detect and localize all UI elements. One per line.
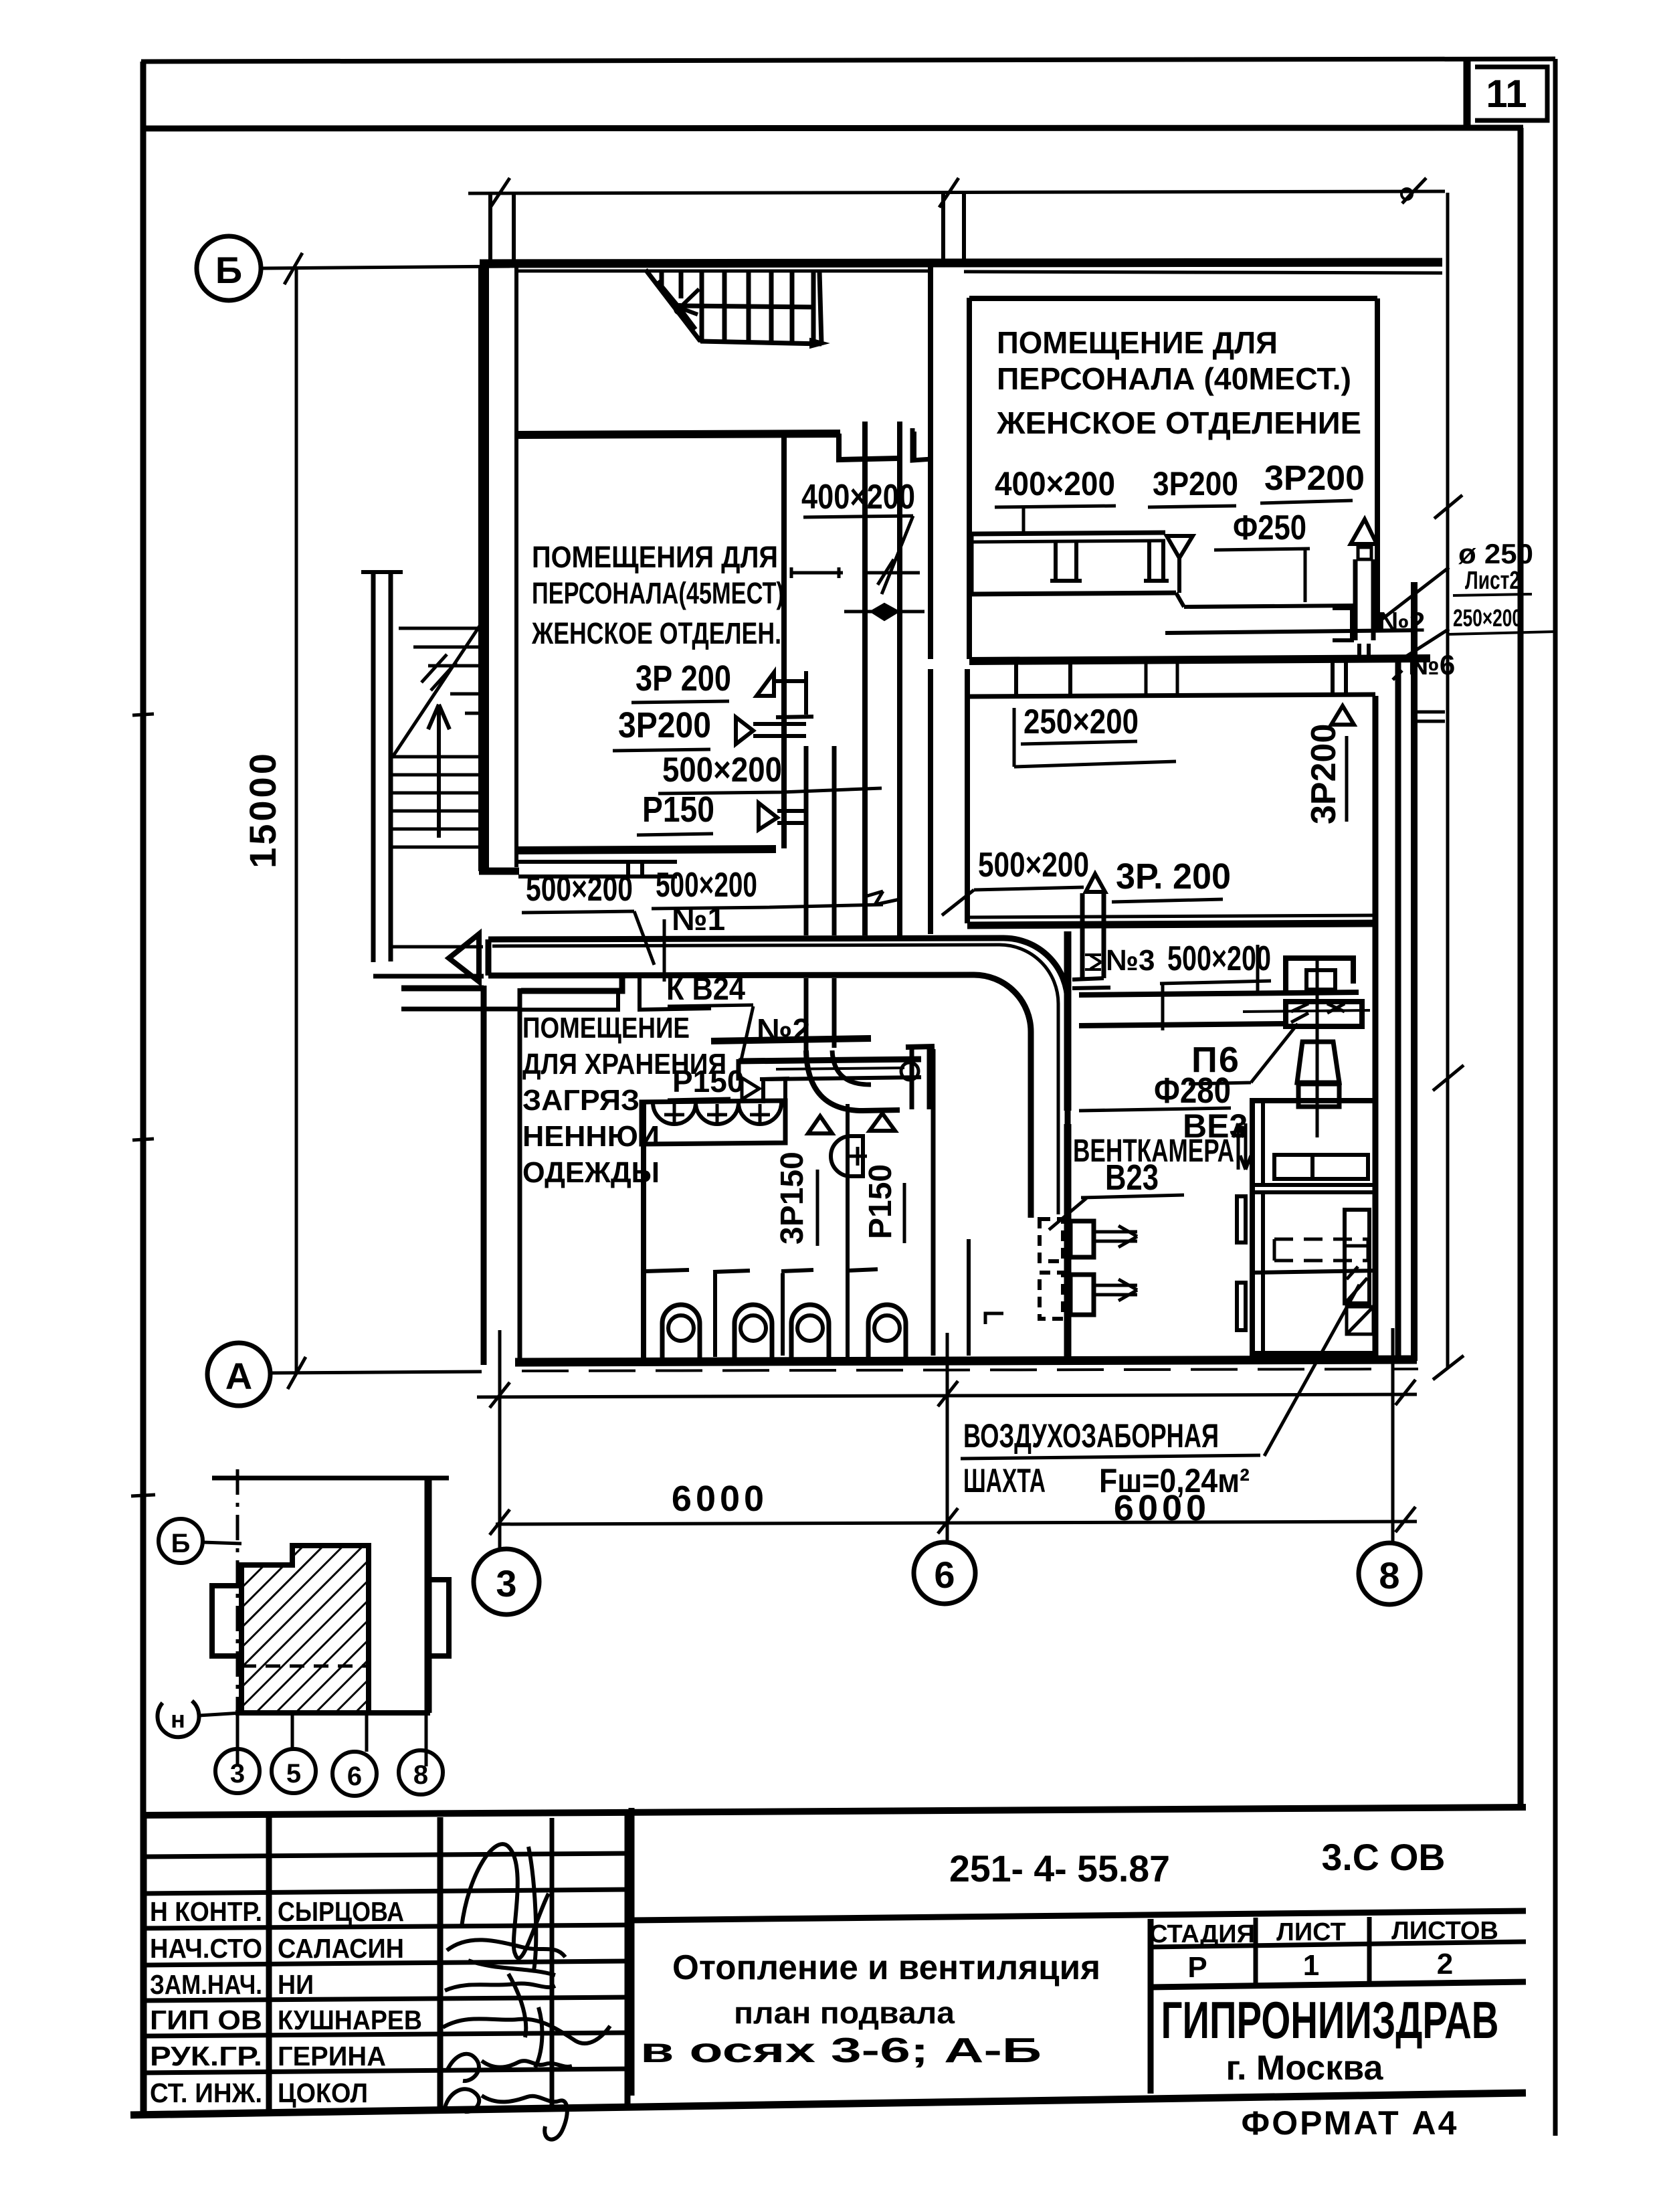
room40 duct grille 1 — [1050, 541, 1082, 581]
fan П6 flexible cone — [1297, 1042, 1339, 1083]
svg-text:Н КОНТР.: Н КОНТР. — [150, 1896, 262, 1927]
svg-text:ШАХТА: ШАХТА — [963, 1462, 1046, 1499]
svg-text:5: 5 — [286, 1759, 301, 1788]
svg-text:Р150: Р150 — [672, 1064, 744, 1099]
wc mid partition — [846, 1104, 850, 1358]
room40 duct reducer — [1176, 593, 1184, 607]
svg-text:ПОМЕЩЕНИЯ ДЛЯ: ПОМЕЩЕНИЯ ДЛЯ — [532, 540, 778, 574]
room45 east wall — [781, 436, 787, 848]
key plan axis circle Н — [157, 1701, 199, 1737]
leader to ø250 — [1378, 567, 1449, 622]
svg-text:№2: №2 — [1378, 606, 1425, 638]
west wall lower inner — [401, 988, 520, 1362]
drawing frame top — [145, 128, 1523, 128]
svg-text:3.С ОВ: 3.С ОВ — [1322, 1836, 1446, 1878]
main duct exit arrow — [449, 934, 479, 982]
storage room top wall — [521, 977, 622, 991]
staff table role and name labels — [150, 1896, 422, 2108]
svg-text:В23: В23 — [1105, 1158, 1159, 1198]
B23 internal top section — [1252, 1101, 1375, 1192]
svg-text:6: 6 — [347, 1762, 362, 1791]
corridor duct junction diamond — [872, 604, 898, 620]
wc partition 2 — [781, 1270, 813, 1356]
svg-text:ГИПРОНИИЗДРАВ: ГИПРОНИИЗДРАВ — [1161, 1991, 1499, 2049]
svg-text:250×200: 250×200 — [1453, 604, 1522, 632]
svg-text:СТ. ИНЖ.: СТ. ИНЖ. — [150, 2078, 262, 2108]
riser N3 — [1082, 893, 1104, 978]
svg-text:НИ: НИ — [278, 1969, 314, 2000]
room40 west wall — [967, 298, 972, 659]
svg-text:2: 2 — [1437, 1948, 1453, 1980]
toilet 4 — [868, 1305, 906, 1358]
page top border — [141, 59, 1555, 62]
svg-text:500×200: 500×200 — [526, 870, 633, 909]
mid room wall duct marks — [1359, 644, 1369, 661]
key plan top line — [212, 1476, 449, 1481]
svg-text:ЛИСТ: ЛИСТ — [1276, 1918, 1346, 1946]
svg-text:8: 8 — [1379, 1554, 1399, 1596]
svg-text:СЫРЦОВА: СЫРЦОВА — [278, 1896, 404, 1927]
east wall outer — [1411, 582, 1418, 1361]
stair to room wall — [518, 434, 840, 435]
B23 side flaps — [1237, 1196, 1246, 1242]
sheet number box — [1464, 60, 1471, 128]
arrow Р150 wash — [742, 1078, 759, 1099]
svg-text:Б: Б — [171, 1529, 191, 1558]
svg-text:500×200: 500×200 — [656, 866, 757, 905]
B23 lower dividers — [1252, 1192, 1375, 1354]
bottom inner dimension line — [477, 1394, 1417, 1397]
wc triangle up 1 — [808, 1116, 832, 1133]
duct down to ventkamera — [1031, 1002, 1068, 1218]
svg-text:ГЕРИНА: ГЕРИНА — [278, 2041, 386, 2071]
top dimension line — [468, 191, 1445, 193]
axis circle А — [207, 1343, 270, 1406]
fold tick left border y2235 — [131, 1495, 155, 1496]
axis circle 8 — [1359, 1543, 1420, 1604]
svg-text:Р150: Р150 — [863, 1164, 898, 1239]
exterior stair steps — [393, 628, 483, 947]
ventkamera flex connector dashed lower — [1040, 1273, 1063, 1319]
interior stair winder fan — [658, 281, 699, 329]
axis circle 6 — [914, 1542, 975, 1604]
axis 3 extension line — [498, 1330, 502, 1549]
axis line Б — [261, 266, 510, 268]
svg-text:Ф280: Ф280 — [1154, 1071, 1231, 1111]
axis 6 extension line — [946, 1333, 949, 1542]
main duct elbow down — [1003, 938, 1068, 1002]
corridor duct break mark — [865, 891, 900, 905]
svg-text:план подвала: план подвала — [734, 1995, 955, 2030]
svg-text:Fш=0,24м²: Fш=0,24м² — [1099, 1462, 1250, 1499]
west wall stairwell inner — [514, 266, 518, 867]
svg-text:3: 3 — [230, 1759, 245, 1788]
exterior stair break slashes — [421, 654, 456, 690]
interior stair diagonal cut — [646, 270, 700, 341]
svg-text:11: 11 — [1486, 72, 1527, 116]
top wall break columns right — [943, 193, 964, 262]
washbasin right single — [831, 1136, 863, 1176]
exterior stair shaft left lines — [373, 572, 391, 962]
svg-text:ВОЗДУХОЗАБОРНАЯ: ВОЗДУХОЗАБОРНАЯ — [963, 1417, 1219, 1455]
svg-text:ЦОКОЛ: ЦОКОЛ — [278, 2078, 368, 2108]
title block bottom line — [130, 2093, 1526, 2115]
svg-text:НЕННЮИ: НЕННЮИ — [522, 1120, 660, 1153]
wc east wall — [931, 1049, 936, 1356]
key plan right tab — [428, 1580, 449, 1656]
fan П6 body — [1286, 1002, 1362, 1026]
key plan axis circle Б — [159, 1519, 203, 1563]
svg-text:3Р150: 3Р150 — [775, 1151, 810, 1245]
wc partition arm mid — [848, 1269, 878, 1271]
bottom outer dimension line — [496, 1522, 1417, 1524]
washbasin 2 — [696, 1103, 739, 1124]
svg-text:1: 1 — [1303, 1949, 1319, 1982]
key plan axis circle 5 — [272, 1749, 316, 1793]
svg-text:ПЕРСОНАЛА (40МЕСТ.): ПЕРСОНАЛА (40МЕСТ.) — [997, 361, 1351, 396]
svg-text:3Р200: 3Р200 — [1304, 724, 1343, 824]
wc partition stub left — [646, 1270, 689, 1271]
axis line А dashed through building — [522, 1369, 1418, 1371]
mid room inner top line — [969, 695, 1375, 697]
washbasin row box — [642, 1101, 785, 1144]
riser stub with cap — [912, 1049, 929, 1109]
corridor west wall upper — [928, 262, 933, 659]
exterior top wall — [480, 262, 1442, 264]
key plan axis circle 8 — [399, 1750, 443, 1794]
corridor west wall lower — [928, 669, 933, 934]
mid room top wall — [969, 658, 1430, 661]
svg-text:3Р 200: 3Р 200 — [636, 658, 731, 699]
B23 diag box — [1347, 1307, 1373, 1334]
washroom duct damper circle — [901, 1063, 918, 1080]
svg-text:Р150: Р150 — [642, 790, 714, 830]
mid room east inner wall — [1373, 696, 1379, 1357]
svg-text:в осях 3-6; А-Б: в осях 3-6; А-Б — [640, 2031, 1042, 2070]
axis circle 3 — [474, 1549, 539, 1615]
svg-text:8: 8 — [413, 1760, 428, 1790]
room45 bottom wall duct lines — [518, 862, 677, 877]
svg-text:СТАДИЯ: СТАДИЯ — [1149, 1920, 1255, 1948]
svg-text:ЗАГРЯЗ-: ЗАГРЯЗ- — [522, 1084, 650, 1117]
Р150 grille stub — [760, 1079, 789, 1103]
svg-text:Отопление и вентиляция: Отопление и вентиляция — [672, 1948, 1100, 1987]
east wall inner — [1395, 658, 1401, 1360]
svg-text:3Р200: 3Р200 — [1264, 459, 1365, 498]
grille arrow 3Р200 right — [757, 672, 806, 696]
fan П6 center line — [1316, 958, 1319, 1137]
key plan right wall — [425, 1478, 432, 1713]
B23 dashed mid connector — [1274, 1239, 1368, 1261]
axis 8 extension line — [1391, 1328, 1395, 1544]
wc triangle up 2 — [870, 1113, 895, 1131]
exhaust duct below main — [806, 978, 834, 1050]
title block top line — [141, 1807, 1526, 1815]
B23 fan box top — [1274, 1155, 1368, 1179]
east wall duct stub right — [1417, 712, 1445, 721]
interior stair flight steps — [662, 272, 821, 344]
drawing frame right — [1518, 128, 1524, 1808]
top wall inner face line — [516, 271, 1442, 273]
svg-text:ФОРМАТ А4: ФОРМАТ А4 — [1242, 2104, 1459, 2142]
room40 east wall — [1375, 298, 1380, 629]
svg-text:Б: Б — [215, 249, 242, 291]
room45 bottom wall — [518, 849, 776, 850]
svg-text:Ф250: Ф250 — [1233, 509, 1306, 547]
fan П6 inner box — [1306, 970, 1335, 990]
svg-text:6: 6 — [934, 1554, 955, 1596]
washbasin 3 — [739, 1103, 781, 1124]
svg-text:К В24: К В24 — [666, 972, 745, 1007]
staff table outer — [142, 1815, 627, 2113]
mid room bottom wall — [967, 923, 1375, 925]
250x200 duct run marks — [1026, 622, 1069, 658]
ventkamera B23 box — [1252, 1101, 1375, 1354]
ventkamera stub upper — [1070, 1221, 1094, 1257]
interior stair direction arrowhead — [810, 339, 827, 348]
svg-text:ЛИСТОВ: ЛИСТОВ — [1391, 1917, 1498, 1945]
riser ф250 triangle — [1351, 519, 1377, 544]
fold tick left border y1703 — [132, 1139, 154, 1140]
ventkamera stub lower — [1070, 1275, 1094, 1315]
west wall stairwell outer — [478, 266, 489, 871]
ventkamera stub arrow upper — [1096, 1226, 1137, 1247]
room40 duct along wall — [971, 533, 1176, 594]
fold tick left border y1068 — [132, 714, 154, 715]
room40 duct grille 2 — [1144, 541, 1169, 581]
shower tray — [810, 1183, 842, 1203]
room40 narrow duct — [1165, 606, 1413, 633]
svg-text:ЖЕНСКОЕ ОТДЕЛЕН.: ЖЕНСКОЕ ОТДЕЛЕН. — [531, 616, 781, 650]
axis line А — [270, 1372, 482, 1373]
key plan step outline — [241, 1546, 292, 1713]
svg-text:ЖЕНСКОЕ ОТДЕЛЕНИЕ: ЖЕНСКОЕ ОТДЕЛЕНИЕ — [996, 405, 1361, 440]
svg-text:6000: 6000 — [672, 1479, 768, 1519]
key plan bottom line — [235, 1710, 430, 1716]
west wall cap at stair bottom — [479, 868, 519, 875]
leader N6 — [1393, 629, 1449, 680]
svg-text:251- 4- 55.87: 251- 4- 55.87 — [949, 1847, 1170, 1890]
vertical dimension line 15000 — [295, 268, 298, 1373]
svg-text:№1: №1 — [672, 902, 725, 937]
room40 west wall lower — [965, 669, 970, 923]
exhaust duct pair from washroom — [806, 746, 834, 935]
500x200 duct to П6 — [1079, 992, 1359, 1026]
svg-text:№3: №3 — [1106, 944, 1155, 977]
svg-text:ЗАМ.НАЧ.: ЗАМ.НАЧ. — [150, 1969, 262, 2000]
wc west partition — [641, 1103, 646, 1358]
duct marks on mid room top — [1333, 662, 1346, 693]
svg-text:г. Москва: г. Москва — [1226, 2049, 1384, 2088]
key plan stubs to axis circles — [237, 1713, 426, 1752]
svg-text:15000: 15000 — [241, 751, 284, 868]
svg-text:ПОМЕЩЕНИЕ: ПОМЕЩЕНИЕ — [522, 1012, 690, 1044]
riser stub square — [1333, 608, 1352, 640]
riser ф250 shaft — [1355, 559, 1373, 640]
leader воздухозаборная — [1264, 1285, 1359, 1456]
B23 fan scroll — [1345, 1210, 1369, 1303]
key plan axis circle 6 — [332, 1752, 377, 1796]
shower head symbol — [818, 1168, 836, 1202]
svg-text:н: н — [171, 1706, 185, 1733]
svg-text:ПОМЕЩЕНИЕ ДЛЯ: ПОМЕЩЕНИЕ ДЛЯ — [997, 325, 1278, 360]
svg-text:ОДЕЖДЫ: ОДЕЖДЫ — [522, 1156, 660, 1189]
duct elbow from exhaust pair — [806, 1050, 900, 1111]
svg-text:500×200: 500×200 — [662, 751, 782, 790]
toilet 3 — [791, 1305, 829, 1358]
svg-text:500×200: 500×200 — [1167, 939, 1271, 978]
mid room top wall break marks — [1146, 661, 1177, 697]
exterior bottom wall — [515, 1360, 1417, 1362]
top wall break columns left — [490, 193, 514, 265]
west wall lower outer — [401, 986, 484, 1365]
key plan hatched block — [241, 1546, 369, 1713]
page right border — [1553, 59, 1558, 2136]
room40 funnel diffuser — [1167, 536, 1193, 593]
exterior stair diagonal — [393, 621, 483, 871]
svg-text:3Р200: 3Р200 — [1153, 465, 1238, 502]
title area left edge — [629, 1808, 635, 2096]
right vertical dimension line — [1446, 193, 1450, 1369]
svg-text:КУШНАРЕВ: КУШНАРЕВ — [278, 2005, 422, 2035]
corridor duct tick lines — [791, 567, 843, 578]
key plan dashed strip — [241, 1665, 369, 1668]
svg-text:РУК.ГР.: РУК.ГР. — [150, 2041, 262, 2071]
page left border — [140, 62, 147, 2114]
washbasin 1 — [653, 1103, 696, 1124]
washroom duct inner line — [776, 1068, 904, 1069]
stadia list grid — [1151, 1917, 1526, 2094]
wall marks above П6 — [1256, 945, 1260, 993]
shower stall partition — [967, 1239, 971, 1356]
duct stub under N3 — [1072, 978, 1110, 988]
line under doc number row — [631, 1911, 1526, 1920]
key plan axis vertical dashdot left — [236, 1469, 239, 1766]
svg-text:Р: Р — [1187, 1951, 1207, 1984]
svg-text:ø 250: ø 250 — [1458, 538, 1533, 569]
key plan axis vertical dashdot right — [425, 1478, 428, 1766]
grille arrow Р150 — [759, 803, 806, 830]
wc zone top wall — [711, 1038, 871, 1041]
svg-text:3: 3 — [496, 1562, 516, 1604]
mid room grille triangle up right — [1331, 706, 1354, 725]
svg-text:№2: №2 — [757, 1013, 810, 1048]
svg-text:400×200: 400×200 — [801, 478, 915, 517]
svg-text:А: А — [225, 1355, 252, 1397]
fan П6 axis line — [1243, 1010, 1370, 1012]
ventkamera flex connector dashed upper — [1040, 1219, 1063, 1261]
ventkamera west wall — [1064, 931, 1072, 1358]
branch stub 3Р200 upper — [776, 671, 813, 717]
B23 updown arrow — [1233, 1123, 1251, 1170]
key plan left tab — [212, 1586, 241, 1656]
corridor duct pair — [865, 422, 900, 935]
svg-text:ПЕРСОНАЛА(45МЕСТ): ПЕРСОНАЛА(45МЕСТ) — [532, 576, 784, 610]
svg-text:250×200: 250×200 — [1023, 703, 1139, 741]
svg-text:3Р200: 3Р200 — [618, 705, 711, 745]
toilet 2 — [735, 1305, 772, 1358]
wc partition 1 — [713, 1271, 750, 1357]
grille arrow 3Р200 left — [736, 717, 806, 744]
svg-text:№6: №6 — [1408, 649, 1455, 680]
key plan axis circle 3 — [215, 1749, 260, 1793]
svg-text:3Р. 200: 3Р. 200 — [1116, 856, 1231, 897]
svg-text:ГИП ОВ: ГИП ОВ — [150, 2005, 262, 2035]
washroom duct bottom line — [766, 1077, 921, 1079]
exterior stair up arrow — [428, 705, 450, 838]
axis circle Б — [197, 236, 261, 300]
ventkamera stub arrow lower — [1096, 1279, 1137, 1301]
svg-text:Лист2: Лист2 — [1465, 567, 1520, 595]
signatures column squiggles — [443, 1844, 610, 2139]
svg-text:500×200: 500×200 — [978, 846, 1089, 885]
fan П6 outer box — [1286, 958, 1353, 991]
svg-text:НАЧ.СТО: НАЧ.СТО — [150, 1933, 262, 1964]
main supply duct horizontal — [488, 938, 1003, 939]
toilet 1 — [662, 1305, 700, 1358]
svg-text:САЛАСИН: САЛАСИН — [278, 1933, 404, 1964]
washroom wall with duct top — [739, 1059, 921, 1061]
room40 top wall — [969, 296, 1377, 301]
duct drop marks through mid room wall — [1016, 664, 1070, 696]
svg-text:400×200: 400×200 — [995, 465, 1115, 502]
